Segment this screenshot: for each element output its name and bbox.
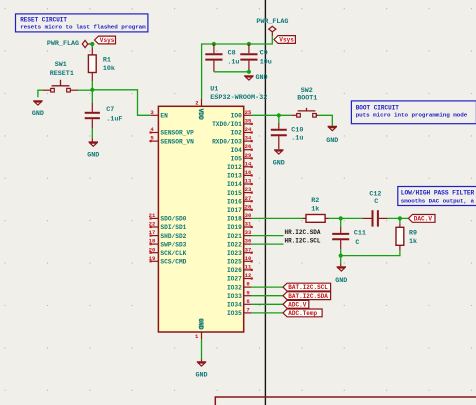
pin 29 IO5: [231, 152, 252, 163]
svg-text:IO5: IO5: [231, 156, 242, 163]
svg-text:R1: R1: [103, 56, 111, 64]
junction C9 rail: [247, 42, 251, 46]
svg-text:IO35: IO35: [227, 310, 242, 317]
svg-text:33: 33: [245, 229, 252, 236]
svg-text:BOOT CIRCUIT: BOOT CIRCUIT: [356, 105, 400, 112]
label ADC.Temp: [283, 309, 322, 317]
junction gnd rail: [339, 254, 343, 258]
svg-text:IO4: IO4: [231, 147, 242, 154]
switch SW1 RESET1: [50, 61, 74, 92]
junction C11 top: [339, 216, 343, 220]
pin 3 EN: [150, 109, 168, 120]
wire/net BAT.I2C.SDA: [252, 295, 283, 297]
wire: IO0 to SW2: [252, 114, 292, 116]
pin 35 TXD0/IO1: [212, 118, 252, 129]
pin 28 IO17: [227, 203, 252, 214]
power flag PWR_FLAG (left): [82, 40, 92, 47]
pin 2 VDD (top): [195, 98, 204, 120]
pin 30 IO18: [227, 212, 252, 223]
svg-text:C11: C11: [354, 230, 366, 238]
svg-text:GND: GND: [335, 277, 347, 285]
ground (C7): [89, 142, 98, 146]
capacitor C7 .1uF: [85, 90, 123, 129]
svg-text:GND: GND: [87, 152, 99, 160]
svg-text:IO15: IO15: [227, 190, 242, 197]
svg-text:IO2: IO2: [231, 130, 242, 137]
svg-text:IO18: IO18: [227, 216, 242, 223]
pin 21 SDO/SD0: [149, 212, 187, 223]
svg-text:ESP32-WROOM-32: ESP32-WROOM-32: [210, 94, 267, 102]
svg-text:RESET CIRCUIT: RESET CIRCUIT: [20, 16, 67, 23]
pin 7 IO35: [227, 307, 252, 318]
wire: GND pin to ground: [201, 339, 203, 359]
svg-text:1k: 1k: [409, 238, 417, 246]
op-amp U1 body: ESP32-WROOM-32: [158, 85, 267, 332]
svg-text:BAT.I2C.SDA: BAT.I2C.SDA: [288, 293, 328, 300]
wire: IO18 to R2: [252, 217, 303, 219]
svg-text:GND: GND: [32, 110, 44, 118]
svg-text:HR.I2C.SCL: HR.I2C.SCL: [285, 238, 321, 245]
pin 6 IO34: [227, 298, 252, 309]
note box: BOOT CIRCUIT: [351, 101, 476, 124]
svg-text:IO14: IO14: [227, 181, 242, 188]
svg-text:GND: GND: [255, 74, 267, 82]
svg-text:C7: C7: [106, 106, 114, 114]
note box corner (bottom right): [215, 397, 476, 405]
junction C8 rail: [212, 42, 216, 46]
capacitor C8 .1u: [205, 44, 239, 72]
resistor R2 1k: [303, 197, 329, 222]
pin 19 SCS/CMD: [149, 255, 187, 266]
svg-text:IO23: IO23: [227, 250, 242, 257]
svg-text:PWR_FLAG: PWR_FLAG: [47, 40, 79, 48]
svg-text:27: 27: [245, 195, 252, 202]
pin 13 IO14: [227, 178, 252, 189]
capacitor C9 10u: [240, 44, 271, 72]
svg-text:GND: GND: [197, 318, 204, 329]
svg-text:C8: C8: [228, 50, 236, 58]
svg-text:PWR_FLAG: PWR_FLAG: [256, 18, 288, 26]
pin 12 IO27: [227, 272, 252, 283]
junction C10: [277, 113, 281, 117]
label BAT.I2C.SDA: [283, 292, 331, 300]
wire: C8 to C9 bottom: [214, 71, 249, 73]
pin 11 IO26: [227, 264, 252, 275]
ground (SW2): [328, 126, 337, 130]
ground (C8/C9): [244, 76, 253, 80]
note box: RESET CIRCUIT: [16, 14, 148, 32]
wire: C11 to R9 bottom rail: [341, 249, 400, 255]
svg-text:SENSOR_VP: SENSOR_VP: [160, 130, 194, 137]
svg-text:1k: 1k: [311, 205, 319, 213]
wire/net ADC.V: [252, 303, 283, 305]
capacitor C10 .1u: [271, 115, 304, 149]
wire/net BAT.I2C.SCL: [252, 286, 283, 288]
svg-text:SCK/CLK: SCK/CLK: [160, 250, 186, 257]
svg-text:.1u: .1u: [291, 134, 303, 142]
pin 10 IO25: [227, 255, 252, 266]
svg-text:RXD0/IO3: RXD0/IO3: [212, 138, 242, 145]
pin 37 IO23: [227, 246, 252, 257]
svg-text:37: 37: [245, 246, 252, 253]
svg-text:GND: GND: [326, 137, 338, 145]
svg-text:RESET1: RESET1: [50, 70, 74, 78]
wire/net HR.I2C.SDA: [252, 235, 284, 237]
svg-text:36: 36: [245, 238, 252, 245]
svg-text:EN: EN: [160, 113, 168, 120]
capacitor C11 C: [332, 218, 366, 249]
svg-text:U1: U1: [210, 85, 218, 93]
svg-text:SW1: SW1: [55, 61, 67, 69]
wire: SW2 to ground: [319, 115, 332, 126]
svg-text:IO17: IO17: [227, 207, 242, 214]
svg-text:10u: 10u: [260, 59, 272, 67]
ground (filter): [337, 267, 346, 271]
wire/net HR.I2C.SCL: [252, 243, 284, 245]
svg-text:Vsys: Vsys: [100, 37, 115, 44]
svg-text:IO25: IO25: [227, 259, 242, 266]
svg-text:IO12: IO12: [227, 164, 242, 171]
pin 4 SENSOR_VP: [150, 126, 194, 137]
ground (U1): [197, 362, 206, 366]
svg-text:TXD0/IO1: TXD0/IO1: [212, 121, 242, 128]
wire: junction to EN pin: [92, 90, 150, 116]
svg-text:10k: 10k: [103, 65, 115, 73]
label BAT.I2C.SCL: [283, 283, 331, 291]
junction R9 top: [398, 216, 402, 220]
svg-text:IO22: IO22: [227, 241, 242, 248]
pin 27 IO16: [227, 195, 252, 206]
wire: SW1 left to ground: [43, 89, 51, 91]
svg-text:BOOT1: BOOT1: [297, 94, 317, 102]
wire: junction down to ground: [340, 256, 342, 264]
svg-text:LOW/HIGH PASS FILTER: LOW/HIGH PASS FILTER: [401, 190, 475, 197]
svg-text:C9: C9: [260, 50, 268, 58]
svg-text:C: C: [374, 198, 378, 206]
power label Vsys (left): [95, 36, 116, 44]
pin 25 IO0: [231, 109, 252, 120]
svg-text:DAC.V: DAC.V: [414, 216, 433, 223]
svg-text:IO33: IO33: [227, 293, 242, 300]
pin 24 IO2: [231, 126, 252, 137]
wire: C12 to R9/DAC.V: [388, 217, 409, 219]
pin 5 SENSOR_VN: [150, 135, 194, 146]
svg-text:BAT.I2C.SCL: BAT.I2C.SCL: [288, 284, 328, 291]
svg-text:ADC.V: ADC.V: [288, 301, 306, 308]
svg-text:7: 7: [246, 307, 249, 314]
pin 1 GND (bottom): [195, 318, 204, 340]
svg-text:IO32: IO32: [227, 284, 242, 291]
wire: C7 to ground: [91, 128, 93, 138]
pin 31 IO19: [227, 221, 252, 232]
pin 34 RXD0/IO3: [212, 135, 252, 146]
svg-text:GND: GND: [273, 160, 285, 168]
resistor R1 10k: [88, 44, 115, 81]
resistor R9 1k: [396, 218, 417, 250]
wire: R2 to C12: [329, 217, 363, 219]
pin 18 SWP/SD3: [149, 238, 187, 249]
svg-text:resets micro to last flashed p: resets micro to last flashed program: [20, 24, 146, 31]
wire: Vsys top rail: [202, 36, 273, 98]
wire: SW1 right to R1/C7 junction: [70, 89, 78, 91]
svg-text:puts micro into programming mo: puts micro into programming mode: [356, 112, 468, 119]
svg-text:IO21: IO21: [227, 233, 242, 240]
junction C9 gnd: [247, 70, 251, 74]
pin 17 SHD/SD2: [149, 229, 187, 240]
pin 16 IO13: [227, 169, 252, 180]
pin 22 SDI/SD1: [149, 221, 187, 232]
capacitor C12 C: [362, 190, 387, 226]
svg-text:IO19: IO19: [227, 224, 242, 231]
svg-text:R2: R2: [311, 197, 319, 205]
svg-text:25: 25: [245, 109, 252, 116]
svg-text:HR.I2C.SDA: HR.I2C.SDA: [285, 229, 321, 236]
sheet divider line: [264, 0, 266, 405]
svg-text:C: C: [355, 239, 359, 247]
svg-text:IO16: IO16: [227, 198, 242, 205]
svg-text:.1uF: .1uF: [106, 115, 122, 123]
svg-text:R9: R9: [409, 229, 417, 237]
svg-text:VDD: VDD: [197, 109, 204, 120]
svg-text:smooths DAC output, a: smooths DAC output, a: [401, 198, 475, 205]
svg-text:GND: GND: [195, 372, 207, 380]
junction SW1/R1/C7/EN: [90, 88, 94, 92]
ground (C10): [274, 150, 283, 154]
note box: LOW/HIGH PASS FILTER: [398, 187, 476, 206]
svg-text:SWP/SD3: SWP/SD3: [160, 241, 186, 248]
ground (SW1): [33, 101, 42, 105]
pin 33 IO21: [227, 229, 252, 240]
svg-text:.1u: .1u: [227, 59, 239, 67]
pin 14 IO12: [227, 160, 252, 171]
svg-text:IO34: IO34: [227, 302, 242, 309]
svg-text:C10: C10: [291, 127, 303, 135]
svg-text:SDI/SD1: SDI/SD1: [160, 224, 186, 231]
label ADC.V: [283, 300, 309, 308]
pin 23 IO15: [227, 186, 252, 197]
wire: R1 bottom to junction: [91, 81, 93, 90]
svg-text:30: 30: [245, 212, 252, 219]
svg-text:IO13: IO13: [227, 173, 242, 180]
svg-text:IO26: IO26: [227, 267, 242, 274]
pin 36 IO22: [227, 238, 252, 249]
pin 9 IO33: [227, 289, 252, 300]
svg-text:IO27: IO27: [227, 276, 242, 283]
pin 26 IO4: [231, 143, 252, 154]
power label Vsys (top): [274, 36, 295, 44]
svg-text:ADC.Temp: ADC.Temp: [288, 310, 317, 317]
label DAC.V: [408, 215, 435, 223]
svg-text:IO0: IO0: [231, 113, 242, 120]
junction R1 top: [90, 42, 94, 46]
svg-text:SENSOR_VN: SENSOR_VN: [160, 138, 194, 145]
power flag PWR_FLAG (top): [269, 26, 276, 36]
wire/net ADC.Temp: [252, 312, 283, 314]
pin 8 IO32: [227, 281, 252, 292]
svg-text:Vsys: Vsys: [279, 37, 294, 44]
svg-text:SCS/CMD: SCS/CMD: [160, 259, 186, 266]
switch SW2 BOOT1: [291, 87, 319, 117]
svg-text:SDO/SD0: SDO/SD0: [160, 216, 186, 223]
svg-text:SHD/SD2: SHD/SD2: [160, 233, 186, 240]
pin 20 SCK/CLK: [149, 246, 187, 257]
